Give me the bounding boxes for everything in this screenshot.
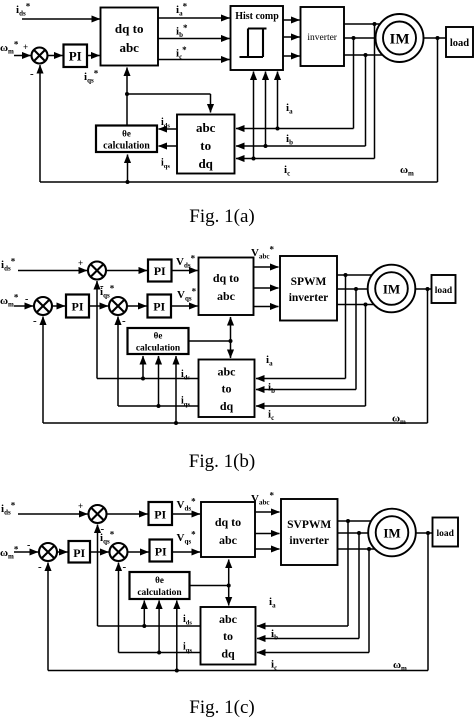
wire current to comp 3 (277, 72, 279, 129)
wire ia drop (345, 275, 347, 379)
wire ib drop (358, 533, 360, 639)
block dq to abc (201, 502, 255, 557)
svg-text:Vds*: Vds* (176, 254, 196, 270)
svg-text:Hist comp: Hist comp (235, 11, 279, 22)
svg-text:PI: PI (154, 264, 166, 278)
wire theta branch across (127, 93, 211, 95)
wire ids out left (97, 378, 199, 380)
svg-text:abc: abc (218, 365, 237, 379)
wire ic to abc-dq (236, 158, 375, 160)
svg-text:SPWM: SPWM (291, 276, 327, 288)
svg-text:-: - (30, 68, 34, 80)
svg-text:ia*: ia* (176, 2, 188, 18)
wire ia drop (347, 521, 349, 626)
wire wm* input (14, 551, 38, 553)
summing junction S3c (110, 543, 128, 561)
wire iqs out left (118, 405, 199, 407)
svg-text:calculation: calculation (136, 344, 181, 354)
svg-text:calculation: calculation (137, 588, 182, 598)
wire PI2 to dq-abc (172, 551, 200, 553)
wire ia* (158, 17, 230, 19)
svg-text:PI: PI (154, 508, 166, 522)
svg-text:IM: IM (390, 32, 410, 48)
svg-text:abc: abc (219, 533, 238, 547)
wire ic* (158, 59, 230, 61)
wire wm* input arrow (14, 55, 31, 57)
wire ids* input (18, 270, 87, 272)
wire iqs to theta calc (158, 356, 160, 406)
svg-text:Vabc*: Vabc* (251, 245, 274, 261)
wire sum2 to PIs (52, 305, 65, 307)
svg-text:Vds*: Vds* (177, 497, 197, 513)
wire ib drop (355, 289, 357, 390)
wire ids to theta calc (143, 601, 145, 627)
wire speed feedback bottom (40, 181, 438, 183)
block inverter (301, 7, 345, 66)
wire iqs to theta calc (159, 145, 178, 147)
block theta-e calculation (128, 328, 189, 354)
svg-text:Vqs*: Vqs* (177, 287, 197, 303)
svg-text:θe: θe (155, 575, 164, 585)
wire theta to dq-abc (126, 68, 128, 126)
wire speed feedback down (427, 289, 429, 423)
wire ic sense drop (374, 24, 376, 159)
wire Vabc to SPWM 1 (254, 266, 279, 268)
wire Vabc to SPWM 2 (254, 287, 279, 289)
svg-text:ia: ia (269, 596, 276, 610)
wire theta down to abc-dq (228, 586, 230, 606)
block abc to dq (201, 607, 256, 665)
wire sum1 to PI1 (107, 513, 148, 515)
svg-text:ids: ids (161, 117, 170, 130)
wire phase b to load (344, 37, 446, 39)
block PI q-current (148, 295, 172, 318)
junction theta branch (227, 584, 231, 588)
junction tap ib (354, 287, 358, 291)
wire phase c (344, 54, 398, 56)
svg-text:+: + (78, 501, 83, 511)
junction theta feed (126, 180, 130, 184)
svg-text:to: to (200, 138, 211, 153)
svg-text:ic: ic (268, 409, 274, 423)
svg-text:ia: ia (286, 102, 293, 116)
block theta-e calculation (130, 572, 190, 599)
svg-text:IM: IM (383, 526, 400, 541)
svg-text:iqs*: iqs* (84, 69, 99, 85)
svg-text:-: - (123, 561, 127, 573)
wire speed feedback down (427, 533, 429, 671)
wire speed feedback bottom (48, 670, 428, 672)
junction tap ic (367, 547, 371, 551)
wire ids to theta calc (142, 356, 144, 379)
svg-text:ib*: ib* (176, 23, 188, 39)
junction tap ia (346, 519, 350, 523)
wire phase a (337, 274, 390, 276)
hysteresis symbol (240, 29, 267, 58)
junction speed tap (436, 36, 440, 40)
junction ids to theta (141, 377, 145, 381)
wire ids feedback up (96, 281, 98, 379)
wire iqs feedback up (117, 317, 119, 407)
wire ia sense drop (353, 38, 355, 129)
svg-text:PI: PI (153, 300, 165, 314)
svg-text:dq: dq (198, 156, 213, 171)
svg-text:Vqs*: Vqs* (177, 530, 197, 546)
junction speed tap (426, 531, 430, 535)
svg-text:inverter: inverter (289, 292, 329, 304)
junction wm to theta (174, 421, 178, 425)
block PI d-current (149, 502, 173, 525)
wire speed feedback bottom (43, 422, 428, 424)
junction tap ic (364, 303, 368, 307)
svg-text:ωm*: ωm* (0, 40, 19, 56)
wire ib* (158, 38, 230, 40)
junction iqs to theta (157, 404, 161, 408)
block PI speed controller (64, 45, 88, 68)
svg-text:abc: abc (196, 120, 216, 135)
block abc to dq (199, 360, 255, 418)
svg-text:Fig. 1(c): Fig. 1(c) (189, 697, 254, 718)
summing junction S2b (34, 297, 52, 315)
junction wm to theta (175, 669, 179, 673)
wire PI1 to dq-abc (172, 513, 200, 515)
summing junction S2c (39, 543, 57, 561)
block SVPWM inverter (281, 499, 338, 565)
junction theta branch (229, 339, 233, 343)
wire ids to theta calc (159, 128, 178, 130)
svg-text:Fig. 1(b): Fig. 1(b) (189, 451, 256, 472)
wire ic drop (365, 305, 367, 407)
svg-text:ids*: ids* (1, 257, 16, 273)
block dq to abc (199, 258, 254, 316)
svg-text:load: load (436, 529, 454, 539)
wire ic to abc-dq (256, 405, 366, 407)
svg-text:abc: abc (119, 40, 139, 55)
wire comp to inverter 3 (283, 55, 300, 57)
svg-text:ic*: ic* (176, 45, 187, 61)
svg-text:iqs*: iqs* (100, 284, 115, 300)
svg-text:-: - (33, 315, 37, 327)
svg-text:PI: PI (155, 545, 167, 559)
block PI speed (69, 541, 91, 563)
block load (432, 275, 456, 303)
svg-text:ic: ic (284, 164, 290, 178)
svg-text:PI: PI (73, 546, 85, 560)
wire sum3 to PI2 (127, 305, 147, 307)
svg-text:iqs: iqs (183, 642, 192, 655)
wire ib to abc-dq (236, 145, 366, 147)
svg-text:dq to: dq to (115, 21, 144, 36)
wire phase a (344, 23, 398, 25)
wire ia to abc-dq (236, 128, 354, 130)
wire wm to theta calc (175, 356, 177, 423)
svg-text:inverter: inverter (289, 535, 329, 547)
svg-text:load: load (450, 38, 469, 49)
junction tap ic (373, 22, 377, 26)
wire sum1 to PI1 (106, 270, 147, 272)
block theta-e calculation (96, 126, 157, 153)
svg-text:Vabc*: Vabc* (251, 491, 274, 507)
svg-text:abc: abc (219, 612, 238, 626)
wire phase b to load (337, 288, 432, 290)
svg-text:iqs: iqs (181, 396, 190, 409)
svg-text:ia: ia (266, 354, 273, 368)
svg-text:ib: ib (271, 628, 278, 642)
wire comp to inverter 2 (283, 36, 300, 38)
wire theta out (190, 585, 229, 587)
svg-text:SVPWM: SVPWM (287, 519, 331, 531)
svg-text:load: load (435, 286, 453, 296)
svg-text:θe: θe (122, 129, 131, 139)
junction comp feed 2 (264, 144, 268, 148)
svg-text:θe: θe (154, 331, 163, 341)
wire theta branch down to abc-dq (210, 94, 212, 113)
wire comp to inverter 1 (283, 19, 300, 21)
block load (433, 518, 459, 547)
wire ib sense drop (365, 55, 367, 146)
svg-text:iqs: iqs (161, 158, 170, 171)
wire iqs out left (119, 652, 201, 654)
svg-text:abc: abc (217, 289, 236, 303)
wire ic to abc-dq (257, 652, 369, 654)
wire current to comp 2 (265, 72, 267, 147)
wire Vabc to SVPWM 2 (255, 533, 280, 535)
wire PI to dq-abc (87, 55, 100, 57)
wire phase a (338, 520, 392, 522)
svg-text:dq: dq (221, 647, 235, 661)
wire iqs feedback up (118, 563, 120, 653)
svg-text:-: - (122, 315, 126, 327)
svg-text:dq to: dq to (213, 271, 239, 285)
svg-text:-: - (27, 540, 30, 551)
summing junction S3b (109, 297, 127, 315)
machine IM (368, 509, 416, 557)
svg-text:ids*: ids* (1, 501, 16, 517)
wire Vabc to SVPWM 1 (255, 511, 280, 513)
svg-text:+: + (78, 258, 83, 268)
junction iqs to theta (157, 651, 161, 655)
wire sum3 to PI2 (128, 551, 149, 553)
block load (446, 27, 473, 57)
svg-text:ids: ids (181, 369, 190, 382)
svg-text:dq to: dq to (215, 515, 241, 529)
junction tap ib (364, 53, 368, 57)
wire ia to abc-dq (256, 378, 346, 380)
svg-text:-: - (38, 561, 42, 573)
junction comp feed 3 (276, 127, 280, 131)
wire phase b to load (338, 532, 433, 534)
wire ids out left (98, 625, 201, 627)
svg-text:calculation: calculation (103, 141, 150, 152)
wire ids* input (18, 513, 88, 515)
wire Vabc to SPWM 3 (254, 306, 279, 308)
svg-text:ids*: ids* (16, 2, 31, 18)
svg-text:PI: PI (72, 300, 84, 314)
wire ids feedback up (97, 525, 99, 627)
wire PIs to sum3 (90, 551, 109, 553)
wire ia to abc-dq (257, 625, 348, 627)
summing junction S1b (88, 262, 106, 280)
wire speed to theta calc (127, 155, 129, 183)
svg-text:to: to (223, 629, 233, 643)
wire phase c (338, 548, 392, 550)
wire ib to abc-dq (256, 389, 356, 391)
svg-text:-: - (25, 294, 28, 305)
summing junction S1c (89, 505, 107, 523)
wire ic drop (368, 549, 370, 653)
block PI speed (66, 295, 89, 318)
block hysteresis comparator (231, 6, 284, 70)
svg-text:dq: dq (220, 399, 234, 413)
junction tap ia (344, 273, 348, 277)
wire theta out (189, 340, 231, 342)
svg-text:to: to (222, 382, 232, 396)
block SPWM inverter (280, 256, 337, 321)
wire current to comp 1 (253, 72, 255, 159)
wire speed feedback to sum2 (42, 317, 44, 424)
junction theta branch (125, 92, 129, 96)
wire wm* input (14, 305, 33, 307)
wire speed feedback down (437, 38, 439, 182)
wire ib to abc-dq (257, 638, 359, 640)
wire ids* input (22, 18, 100, 20)
machine IM (376, 14, 424, 62)
svg-text:ib: ib (286, 133, 293, 147)
wire speed feedback up to sum (39, 65, 41, 182)
svg-text:Fig. 1(a): Fig. 1(a) (189, 206, 254, 227)
wire theta up to dq-abc (228, 560, 230, 586)
svg-text:ib: ib (268, 382, 275, 396)
wire phase c (337, 304, 390, 306)
block abc to dq (177, 115, 235, 174)
wire sum to PI (48, 55, 63, 57)
junction tap ib (357, 531, 361, 535)
wire speed feedback to sum2 (47, 563, 49, 671)
svg-text:PI: PI (69, 49, 82, 64)
junction speed tap (426, 287, 430, 291)
svg-text:IM: IM (383, 282, 400, 297)
svg-text:+: + (23, 42, 28, 52)
svg-text:ωm: ωm (393, 659, 407, 673)
junction tap ia (352, 36, 356, 40)
junction comp feed 1 (252, 157, 256, 161)
svg-text:ωm: ωm (392, 413, 406, 427)
block PI d-current (148, 260, 172, 282)
wire PI1 to dq-abc (172, 270, 198, 272)
wire iqs to theta calc (158, 601, 160, 653)
block PI q-current (150, 540, 173, 562)
wire sum2 to PIs (57, 551, 68, 553)
svg-text:inverter: inverter (307, 33, 337, 43)
wire PI2 to dq-abc (171, 305, 198, 307)
wire PIs to sum3 (89, 305, 108, 307)
wire wm to theta calc (176, 601, 178, 671)
summing junction S1a (32, 48, 48, 64)
svg-text:iqs*: iqs* (100, 530, 115, 546)
svg-text:ids: ids (183, 614, 192, 627)
machine IM (368, 265, 416, 313)
wire theta down to abc-dq (230, 341, 232, 358)
block dq to abc (101, 8, 159, 66)
wire theta up to dq-abc (230, 317, 232, 341)
svg-text:ωm: ωm (400, 164, 414, 178)
wire Vabc to SVPWM 3 (255, 548, 280, 550)
junction ids to theta (142, 624, 146, 628)
